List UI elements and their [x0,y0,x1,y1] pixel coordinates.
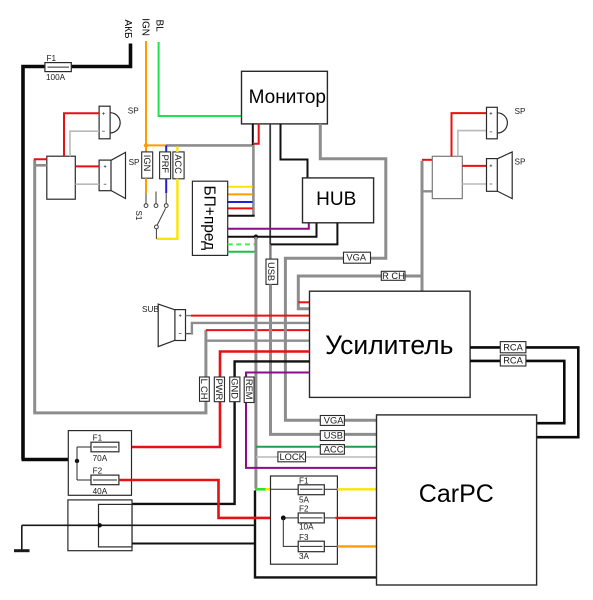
svg-text:IGN: IGN [140,18,151,36]
Monitor box [242,71,328,124]
junction dot battery [98,523,102,527]
wire АКБ thick black from label down-left to fuse F1 [22,44,131,460]
wire red SUB + to amp [186,315,192,317]
svg-text:SUB: SUB [142,305,159,314]
wire gray to woofer - [75,183,99,185]
wire light gray LOCK to CarPC [256,456,377,458]
wire gray branch into amplifier (L CH -) [206,340,309,342]
wire yellow F1 5A to CarPC [337,488,376,490]
junction dot feed [75,459,79,463]
wire green dash segment at F1 feed [255,488,266,491]
wire black HUB to USB line [271,223,338,245]
wire IGN orange below label [145,178,147,193]
wire orange F3 3A to CarPC [337,545,376,547]
svg-text:CarPC: CarPC [419,480,494,508]
svg-text:SP: SP [515,107,526,116]
label box ACC [173,152,184,179]
svg-text:HUB: HUB [316,189,356,210]
wire gray feed continues right then down to PSU fan-out [166,145,253,215]
svg-text:F2: F2 [299,505,309,514]
PSU box БП+пред [192,181,227,255]
junction dot F2 feed [281,516,286,521]
svg-text:F1: F1 [93,434,103,443]
label box VGA (bottom) [320,416,344,426]
svg-text:BL: BL [153,20,164,33]
wire USB gray below label down to CarPC run [271,284,377,434]
speaker woofer SP mid-left: cone [111,152,126,198]
speaker tweeter SP top-right: dome [497,113,507,133]
label box L CH [199,377,209,401]
wire gray R CH cable: right box to amp [421,161,424,291]
battery box outer [68,500,132,551]
wire black RCA 2 (inner) amp to CarPC [470,361,564,423]
speaker SUB: cone [158,304,175,347]
fuse F1 70A [91,434,119,463]
wire red tip into amplifier (L CH +) [206,329,310,331]
svg-text:USB: USB [324,431,343,441]
svg-text:USB: USB [266,262,276,281]
svg-text:RCA: RCA [503,342,523,352]
speaker SUB: terminal rect [175,310,186,341]
wire gray stub left of head unit [35,164,47,167]
label box USB (top) [266,259,278,284]
wire black RCA 1 (outer) amp to CarPC [470,347,578,437]
svg-text:3A: 3A [299,552,310,561]
speaker woofer SP right: terminal rect [487,159,498,192]
wire yellow segment at F1 feed [266,488,271,491]
wire purple PSU to HUB bottom [228,223,309,229]
svg-text:5A: 5A [299,496,310,505]
battery box inner [99,504,133,547]
wire red tip right box (+) [422,159,432,161]
wire red to right tweeter + [452,113,487,156]
svg-text:S1: S1 [134,211,143,221]
label box LOCK [278,452,306,462]
svg-text:БП+пред: БП+пред [201,186,218,251]
svg-text:SP: SP [129,158,140,167]
fuse F3 3A [298,533,337,561]
wire red stub into amp (R CH +) [298,301,309,303]
wire BL green vertical then right into Monitor [159,42,242,116]
HUB box [303,178,374,223]
wire gray bundle vertical down to bottom fuse box [254,237,257,489]
wire yellow [228,186,253,188]
svg-text:ACC: ACC [173,154,183,174]
wire solid green PSU to gray bundle [228,251,256,253]
wire black [228,215,255,217]
svg-text:GND: GND [230,378,240,399]
ground symbol [14,525,30,550]
wire red to woofer + [75,165,99,167]
svg-text:100A: 100A [46,73,66,82]
svg-text:VGA: VGA [324,416,344,426]
wire black bundle continues to bottom feed [255,491,377,578]
wire gray right box (-) [422,190,432,192]
wire PRF blue drop [165,145,167,152]
label box PWR [214,377,224,402]
svg-text:F2: F2 [93,467,103,476]
svg-text:40A: 40A [93,487,108,496]
fuse F1 5A [271,477,338,505]
speaker tweeter SP top-right: terminal rect [487,107,498,139]
wire Monitor black to HUB top [281,124,308,178]
svg-text:VGA: VGA [346,253,366,263]
wire red PWR: fuse F1 70A to amp [119,352,310,448]
svg-text:F1: F1 [47,54,57,63]
wire red to tweeter + [64,113,99,156]
wire dashed green PSU to gray bundle [228,243,256,245]
wire orange feed to the right [146,144,166,146]
wire Monitor USB line down through USB label [269,124,271,244]
svg-text:IGN: IGN [142,155,152,172]
wire black GND: battery to amp [99,361,310,504]
fuse F1 100A [45,54,71,82]
svg-text:АКБ: АКБ [122,20,133,39]
label box PRF [160,152,171,179]
internal wire to F3 [283,518,298,547]
wire Monitor red tap to PSU feed corner [253,124,259,144]
CarPC box [377,415,537,585]
fuse F2 10A [283,505,337,532]
wire ground line through battery [22,524,255,526]
wire ACC yellow drop from feed through label to switch [176,146,178,152]
wire green ACC to CarPC [256,446,377,448]
label box USB (bottom) [320,431,344,441]
label box IGN [142,152,153,178]
speaker tweeter SP top-left: dome [110,113,120,133]
svg-text:70A: 70A [93,454,108,463]
wire gray to right tweeter - [458,131,487,157]
fuse box F1 70A / F2 40A [68,431,131,496]
junction dot on black PSU wire [254,235,259,240]
wire black battery lower to bundle [132,543,255,545]
wire blue [228,201,253,203]
speaker woofer SP right: cone [497,152,512,199]
svg-text:SP: SP [515,158,526,167]
wire purple REM: amp to CarPC [246,373,377,468]
wire gray to tweeter - [70,131,99,156]
switch S1 [144,192,168,239]
wire black PSU to HUB bottom [228,223,317,237]
label box RCA (lower) [500,355,526,366]
svg-text:LOCK: LOCK [280,452,306,462]
label box VGA (top) [344,252,371,263]
wire gray to right woofer - [462,183,486,185]
label box ACC (bottom) [320,445,344,455]
head unit box top-left [47,156,76,199]
wire orange [228,193,253,195]
wire gray SUB - to amp [186,333,192,335]
wire IGN orange vertical [145,41,147,152]
svg-text:ACC: ACC [324,445,344,455]
svg-text:PRF: PRF [160,155,170,174]
svg-text:PWR: PWR [214,379,224,401]
svg-text:L CH: L CH [199,379,209,400]
svg-text:REM: REM [244,379,254,400]
svg-text:Усилитель: Усилитель [325,330,453,360]
wire gray big loop left: down, right, up (L CH cable) [35,161,206,413]
label box RCA (upper) [500,342,526,353]
wire red F2 40A to bottom fuse box [119,480,283,518]
svg-text:R CH: R CH [382,271,405,281]
bottom fuse box F1 5A / F2 10A / F3 3A [271,476,338,564]
wire Monitor gray VGA loop right and down [285,124,385,420]
right connector box [432,156,462,198]
svg-text:F3: F3 [299,533,309,542]
label box GND [230,377,240,402]
wire red F2 10A to CarPC [336,517,377,519]
svg-text:10A: 10A [299,523,314,532]
wire red stub left of head unit [35,159,47,163]
svg-text:SP: SP [128,107,139,116]
fuse F2 40A [91,467,119,496]
label box REM [244,377,254,403]
junction dot IGN feed [144,143,148,147]
wire red to right woofer + [462,165,486,167]
internal bracket wires [77,447,91,480]
wire Monitor black tap to PSU feed corner [252,124,254,145]
svg-text:RCA: RCA [503,356,523,366]
label box R CH [381,271,405,281]
speaker tweeter SP top-left: terminal rect [99,106,110,139]
Amplifier box Усилитель [310,291,471,397]
wire red [228,207,253,209]
svg-text:F1: F1 [299,477,309,486]
speaker woofer SP mid-left: terminal rect [99,160,111,191]
svg-text:Монитор: Монитор [249,87,326,108]
